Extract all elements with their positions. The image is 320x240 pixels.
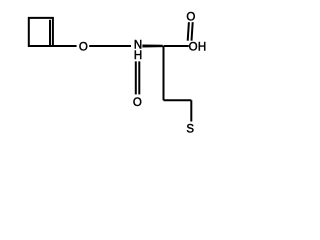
bond C3-C4 [164,99,192,101]
svg-text:S: S [186,124,194,136]
svg-text:O: O [189,42,198,54]
svg-text:H: H [134,50,142,62]
bold bond N-C2 [142,44,162,47]
bond C2-C1 [164,45,189,47]
svg-text:H: H [198,42,206,54]
bond C4-S [190,100,192,121]
ring double bond inner line [49,20,51,45]
double bond N=O2 [136,61,140,94]
cyclobutene ring [29,18,53,46]
svg-text:O: O [133,97,142,109]
double bond C1=O3 [188,22,193,41]
svg-text:O: O [79,42,88,54]
bond ring-O1 [53,45,77,47]
bond C2-C3 [163,46,165,100]
bond O1-N [89,45,131,47]
svg-text:O: O [186,12,195,24]
